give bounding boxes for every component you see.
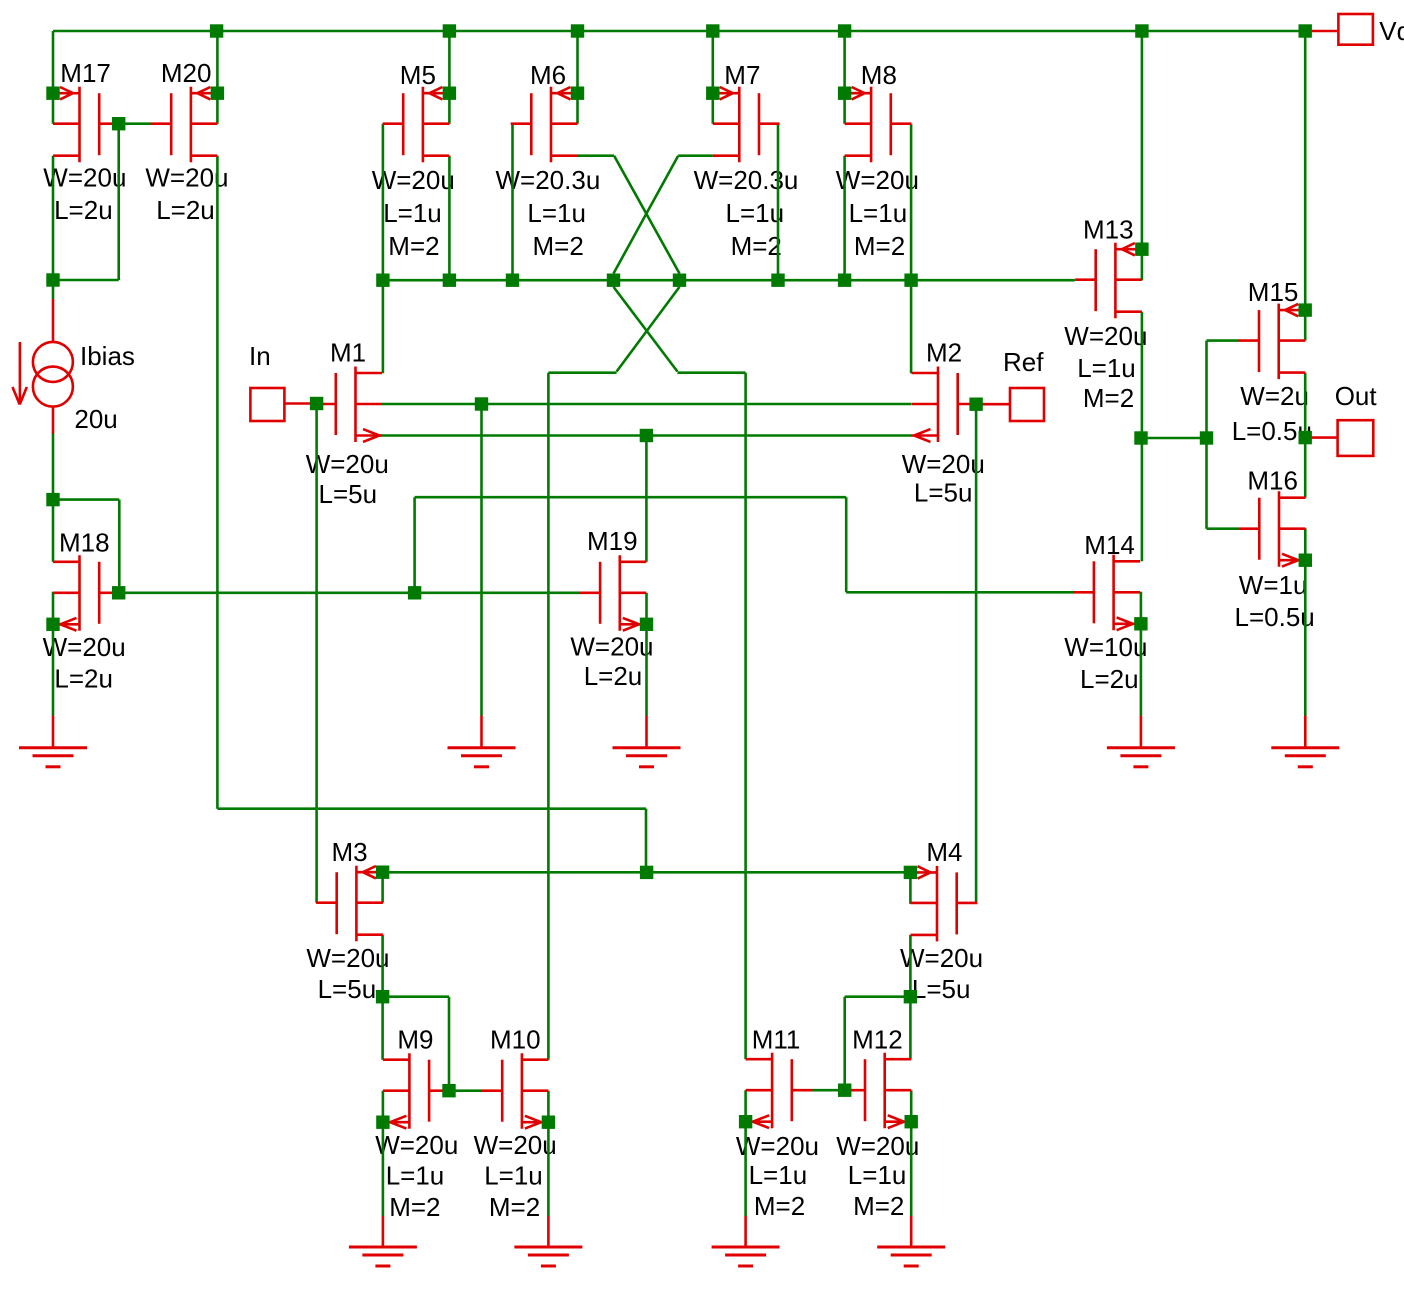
svg-text:M13: M13	[1083, 215, 1134, 245]
svg-text:Ref: Ref	[1003, 347, 1044, 377]
svg-text:W=20u: W=20u	[375, 1130, 458, 1160]
svg-text:In: In	[249, 341, 271, 371]
svg-text:L=2u: L=2u	[54, 195, 113, 225]
svg-text:M6: M6	[530, 60, 566, 90]
svg-text:M2: M2	[926, 338, 962, 368]
svg-text:M14: M14	[1084, 530, 1135, 560]
svg-text:L=2u: L=2u	[54, 664, 113, 694]
svg-text:M1: M1	[330, 338, 366, 368]
svg-text:M=2: M=2	[388, 231, 439, 261]
svg-text:L=1u: L=1u	[726, 198, 785, 228]
svg-text:L=2u: L=2u	[584, 661, 643, 691]
svg-text:M=2: M=2	[1083, 383, 1134, 413]
svg-text:20u: 20u	[74, 404, 117, 434]
svg-text:L=1u: L=1u	[386, 1161, 445, 1191]
svg-text:W=10u: W=10u	[1064, 632, 1147, 662]
svg-text:W=20u: W=20u	[836, 165, 919, 195]
svg-text:M=2: M=2	[731, 231, 782, 261]
svg-text:L=0.5u: L=0.5u	[1235, 602, 1315, 632]
svg-text:M4: M4	[926, 837, 962, 867]
svg-text:M3: M3	[332, 837, 368, 867]
svg-text:L=5u: L=5u	[912, 974, 971, 1004]
svg-text:L=5u: L=5u	[318, 974, 377, 1004]
svg-text:W=20u: W=20u	[43, 632, 126, 662]
svg-text:M17: M17	[60, 58, 111, 88]
svg-text:M10: M10	[490, 1025, 541, 1055]
svg-text:L=2u: L=2u	[1080, 664, 1139, 694]
svg-text:W=20u: W=20u	[306, 943, 389, 973]
svg-text:L=2u: L=2u	[156, 195, 215, 225]
svg-text:W=20u: W=20u	[1064, 321, 1147, 351]
svg-text:Out: Out	[1335, 381, 1378, 411]
svg-text:L=1u: L=1u	[848, 1160, 907, 1190]
svg-text:M9: M9	[397, 1025, 433, 1055]
svg-text:Ibias: Ibias	[80, 341, 135, 371]
svg-text:L=1u: L=1u	[749, 1160, 808, 1190]
svg-text:M=2: M=2	[854, 231, 905, 261]
svg-text:L=5u: L=5u	[914, 478, 973, 508]
svg-text:Vdd: Vdd	[1379, 16, 1404, 46]
svg-text:M16: M16	[1247, 466, 1298, 496]
svg-text:M=2: M=2	[489, 1192, 540, 1222]
svg-text:M=2: M=2	[389, 1192, 440, 1222]
svg-text:W=20u: W=20u	[900, 943, 983, 973]
svg-text:M12: M12	[852, 1025, 903, 1055]
svg-text:W=20u: W=20u	[836, 1131, 919, 1161]
svg-text:W=20u: W=20u	[736, 1131, 819, 1161]
svg-text:W=20u: W=20u	[902, 449, 985, 479]
svg-text:L=1u: L=1u	[383, 198, 442, 228]
svg-text:M=2: M=2	[853, 1191, 904, 1221]
svg-text:M15: M15	[1248, 277, 1299, 307]
svg-text:W=20u: W=20u	[306, 449, 389, 479]
svg-text:M11: M11	[752, 1025, 801, 1055]
svg-text:W=20.3u: W=20.3u	[694, 165, 799, 195]
svg-text:W=20u: W=20u	[145, 163, 228, 193]
svg-text:L=5u: L=5u	[319, 479, 378, 509]
svg-text:W=20u: W=20u	[570, 632, 653, 662]
svg-text:W=1u: W=1u	[1239, 570, 1308, 600]
svg-text:L=1u: L=1u	[1077, 353, 1136, 383]
svg-text:M=2: M=2	[533, 231, 584, 261]
svg-text:W=2u: W=2u	[1240, 381, 1309, 411]
svg-text:W=20u: W=20u	[474, 1130, 557, 1160]
svg-text:L=1u: L=1u	[527, 198, 586, 228]
svg-text:M18: M18	[59, 528, 110, 558]
svg-text:L=1u: L=1u	[849, 198, 908, 228]
svg-text:L=1u: L=1u	[484, 1161, 543, 1191]
svg-text:M20: M20	[161, 58, 212, 88]
svg-text:M7: M7	[724, 60, 760, 90]
svg-text:W=20u: W=20u	[43, 163, 126, 193]
svg-text:M=2: M=2	[754, 1191, 805, 1221]
svg-text:M8: M8	[861, 60, 897, 90]
svg-text:M19: M19	[587, 526, 638, 556]
svg-text:M5: M5	[400, 60, 436, 90]
